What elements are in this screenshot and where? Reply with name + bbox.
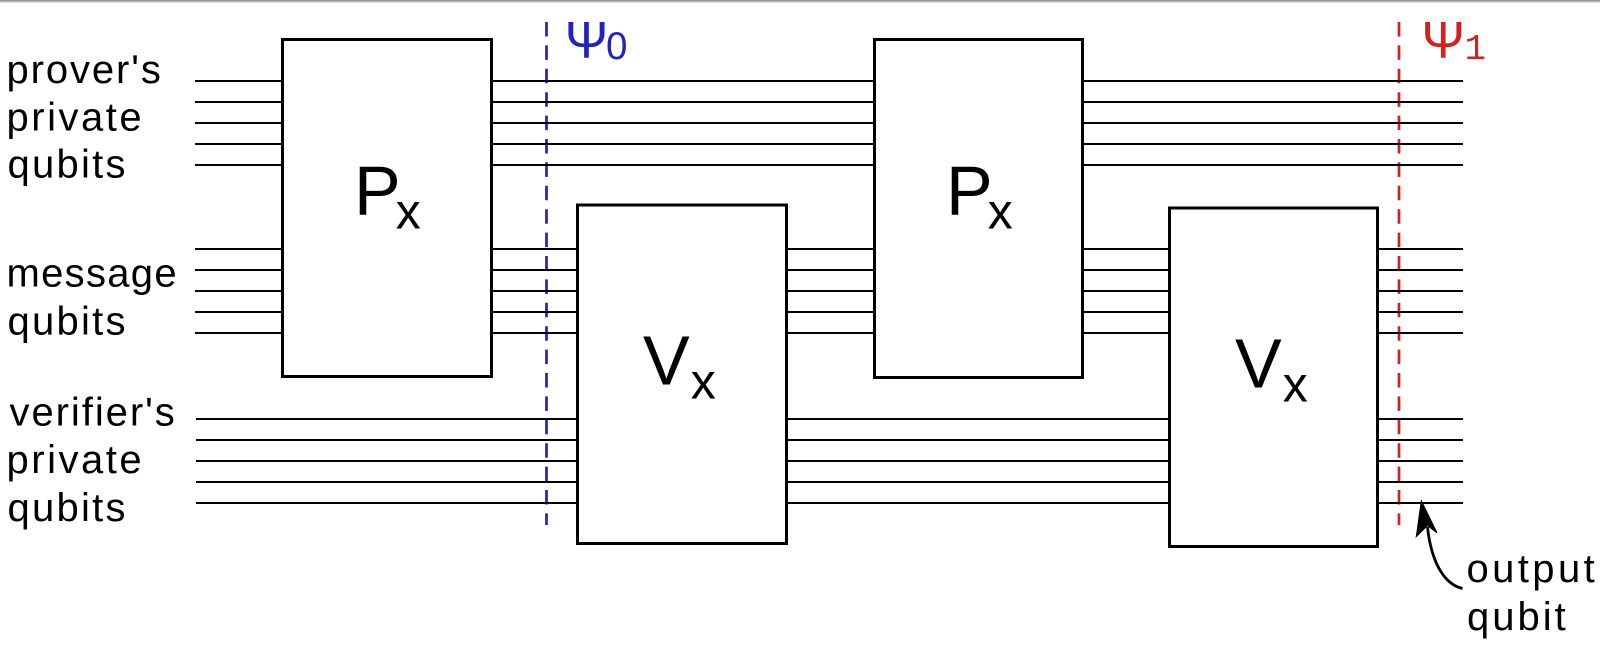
- box V1: [578, 205, 787, 544]
- svg-text:message: message: [7, 252, 178, 296]
- svg-text:qubits: qubits: [8, 486, 128, 530]
- wire prover group: [195, 81, 1463, 165]
- arrowhead: [1416, 501, 1437, 537]
- svg-text:private: private: [7, 438, 145, 482]
- node psi0 dashed line: [545, 22, 548, 525]
- node psi1 dashed line: [1398, 22, 1401, 525]
- svg-text:private: private: [7, 96, 145, 140]
- wire verifier group: [196, 419, 1463, 503]
- box V2: [1170, 208, 1378, 547]
- box P2: [875, 40, 1083, 378]
- svg-text:qubit: qubit: [1467, 595, 1569, 639]
- svg-text:qubits: qubits: [8, 300, 128, 344]
- box P1: [283, 40, 492, 377]
- svg-text:output: output: [1467, 547, 1599, 591]
- arrow to output qubit: [1428, 527, 1463, 589]
- svg-text:prover's: prover's: [7, 48, 163, 92]
- svg-text:verifier's: verifier's: [10, 391, 177, 435]
- wire message group: [195, 249, 1463, 333]
- top window edge band: [0, 0, 1600, 3]
- svg-text:qubits: qubits: [8, 143, 128, 187]
